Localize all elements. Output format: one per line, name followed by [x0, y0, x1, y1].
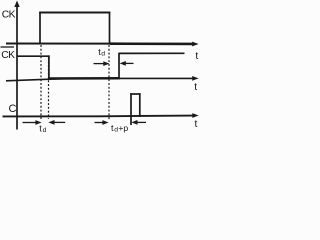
wire C pulse falling edge [139, 93, 141, 117]
svg-text:d: d [101, 51, 105, 58]
wire CKbar high segment 1 [17, 55, 50, 57]
dotted guide at CK rise [40, 45, 42, 119]
wire C time axis [3, 115, 194, 118]
wire CKbar high segment 2 [119, 52, 185, 54]
td+p annotation bottom-right: left arrow line [95, 122, 106, 124]
C axis right arrowhead [192, 113, 198, 118]
td annotation bottom-left: left arrowhead (points right) [35, 120, 41, 125]
wire CK pulse falling edge [109, 12, 111, 45]
shared vertical axis line [16, 3, 18, 130]
td+p annotation bottom-right: right arrow line [134, 121, 146, 123]
svg-text:+p: +p [118, 123, 128, 133]
td annotation bottom-left: left arrow line [23, 122, 39, 124]
CKbar axis right arrowhead [192, 76, 198, 81]
wire CKbar falling edge [48, 55, 50, 78]
CK axis right arrowhead [192, 42, 198, 47]
wire CK time axis baseline thick right part [110, 42, 194, 45]
td annotation bottom-left: right arrowhead (points left) [48, 120, 54, 125]
svg-text:t: t [195, 119, 198, 130]
td+p annotation bottom-right: right arrowhead (points left at pulse edge) [131, 120, 137, 125]
wire CK time axis baseline [6, 43, 110, 45]
svg-text:t: t [195, 51, 198, 62]
wire CKbar rising edge [118, 53, 120, 79]
wire C pulse rising edge (extends below axis) [130, 93, 132, 125]
node CKbar label overline [1, 46, 15, 48]
dotted guide at CK fall [108, 45, 110, 121]
td+p annotation bottom-right: left arrowhead (points right at dotted line) [102, 120, 108, 125]
svg-text:CK: CK [1, 50, 15, 61]
wire C pulse top [130, 93, 140, 95]
td annotation row2: right arrowhead (points left at rising edge) [120, 61, 126, 66]
svg-text:C: C [9, 103, 17, 115]
wire CK pulse top [39, 12, 110, 14]
wire CKbar time axis [6, 78, 194, 80]
wire CKbar low segment (thick) [49, 77, 120, 80]
wire CK pulse rising edge [39, 12, 41, 44]
td annotation row2: left arrow line [94, 63, 106, 65]
td annotation row2: right arrow line [123, 62, 134, 64]
dotted guide at CKbar fall [48, 58, 50, 120]
td annotation bottom-left: right arrow line [51, 121, 65, 123]
svg-text:CK: CK [2, 10, 16, 21]
axis up arrowhead [14, 1, 19, 8]
svg-text:d: d [43, 127, 47, 133]
svg-text:t: t [194, 82, 197, 93]
td annotation row2: left arrowhead (points right at dotted line) [103, 61, 109, 66]
